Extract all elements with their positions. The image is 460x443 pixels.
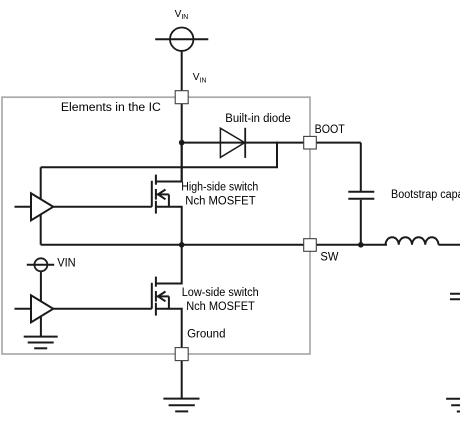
transistor Q1 high-side switch Nch MOSFET xyxy=(152,143,182,245)
svg-text:Built-in diode: Built-in diode xyxy=(225,113,290,125)
svg-text:Nch MOSFET: Nch MOSFET xyxy=(186,301,255,313)
ground (output, clipped at right edge) xyxy=(446,399,460,412)
pad BOOT xyxy=(304,136,317,149)
wire SW rail xyxy=(41,244,387,246)
node junction at SW rail / bootstrap cap xyxy=(358,242,364,248)
inductor L1 xyxy=(386,237,439,245)
svg-text:VIN: VIN xyxy=(57,258,75,270)
svg-text:Bootstrap capacitor: Bootstrap capacitor xyxy=(391,189,460,201)
svg-text:Ground: Ground xyxy=(187,329,225,341)
svg-text:SW: SW xyxy=(320,252,338,264)
node junction at VIN/diode xyxy=(179,140,185,146)
pad GND xyxy=(175,348,188,361)
svg-text:VIN: VIN xyxy=(175,9,189,21)
pad VIN xyxy=(175,91,188,104)
wire BOOT rail to high-side driver xyxy=(41,142,277,168)
wire high-side driver power rail down xyxy=(40,167,42,245)
wire bootstrap cap riser (bottom) xyxy=(360,200,362,245)
svg-text:High-side switch: High-side switch xyxy=(181,182,258,194)
svg-text:BOOT: BOOT xyxy=(315,124,345,136)
buffer U1 high-side driver xyxy=(15,193,152,220)
wire SW pad to inductor and output xyxy=(439,244,460,246)
transistor Q2 low-side switch Nch MOSFET xyxy=(152,245,182,399)
svg-text:Elements in the IC: Elements in the IC xyxy=(61,102,161,114)
voltage source VIN (low-side driver supply) xyxy=(27,258,54,271)
buffer U2 low-side driver xyxy=(15,295,152,322)
wire VIN source to VIN pad and down to node (drain riser) xyxy=(181,51,183,182)
wire bootstrap cap riser (top) xyxy=(360,143,362,191)
node junction at SW rail / MOSFETs xyxy=(179,242,185,248)
svg-text:Low-side switch: Low-side switch xyxy=(182,287,259,299)
pad SW xyxy=(304,239,317,252)
ground (below ground pad) xyxy=(163,399,199,412)
wire low-side driver supply to ground xyxy=(40,271,42,336)
diode D1 built-in diode xyxy=(220,128,245,158)
IC boundary box xyxy=(2,97,310,354)
capacitor C2 output (clipped at right edge) xyxy=(450,294,460,299)
svg-text:VIN: VIN xyxy=(193,72,207,84)
capacitor C1 bootstrap capacitor xyxy=(348,192,374,199)
svg-text:Nch MOSFET: Nch MOSFET xyxy=(185,195,255,207)
voltage source VIN (top) xyxy=(155,28,208,51)
wire BOOT net: VIN node through diode to bootstrap cap riser xyxy=(182,142,361,144)
ground (low-side driver) xyxy=(24,337,58,349)
